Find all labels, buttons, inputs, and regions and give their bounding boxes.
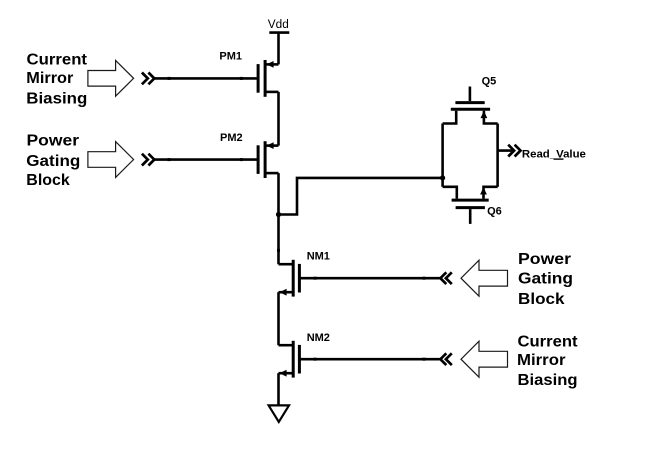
- text Power Gating Block left: [26, 133, 80, 189]
- svg-text:Q5: Q5: [482, 75, 497, 87]
- transistor PM1: [258, 60, 278, 97]
- svg-text:Current: Current: [27, 52, 88, 69]
- port chevrons Current Mirror Biasing left: [142, 73, 154, 85]
- svg-text:Block: Block: [518, 291, 565, 308]
- svg-text:Current: Current: [518, 333, 579, 350]
- text Current Mirror Biasing left: [26, 52, 87, 108]
- block arrow Current Mirror Biasing left: [88, 60, 134, 96]
- svg-text:Q6: Q6: [487, 206, 502, 218]
- transistor NM2: [279, 341, 300, 378]
- wire PM1 drain to PM2 source: [277, 92, 280, 146]
- svg-text:Block: Block: [26, 172, 70, 189]
- svg-text:Vdd: Vdd: [268, 19, 289, 31]
- svg-text:NM2: NM2: [307, 332, 330, 344]
- port chevrons Power Gating Block right: [440, 272, 451, 284]
- wire left port to PM1 gate: [154, 77, 258, 80]
- svg-text:Mirror: Mirror: [26, 70, 73, 87]
- wire transmission gate left vertical: [441, 124, 444, 187]
- transistor Q6: [443, 187, 498, 224]
- block arrow Current Mirror Biasing right: [461, 341, 508, 377]
- transistor NM1: [279, 260, 300, 297]
- svg-text:Biasing: Biasing: [26, 91, 87, 108]
- Vdd power rail bar: [269, 31, 289, 34]
- svg-text:PM1: PM1: [219, 51, 242, 63]
- transistor Q5: [443, 87, 498, 124]
- underscore emphasis in Read_Value: [554, 158, 564, 159]
- wire NM2 source to ground: [277, 373, 280, 405]
- wire transmission gate right vertical: [496, 124, 499, 187]
- wire left port to PM2 gate: [154, 158, 258, 161]
- wire NM1 gate to right port: [299, 277, 440, 280]
- wire junction to transmission gate: [279, 178, 443, 215]
- junction dot at transmission gate input: [440, 175, 445, 180]
- transistor PM2: [258, 141, 278, 178]
- port chevrons Read_Value output: [508, 145, 520, 157]
- block arrow Power Gating Block left: [88, 142, 134, 178]
- port chevrons Power Gating Block left: [142, 154, 154, 166]
- junction dot on rail: [276, 212, 281, 217]
- wire NM2 gate to right port: [299, 358, 440, 361]
- block arrow Power Gating Block right: [461, 260, 508, 296]
- wire joint ticks: [168, 77, 426, 361]
- svg-text:Power: Power: [27, 133, 80, 150]
- svg-text:PM2: PM2: [220, 132, 243, 144]
- svg-text:NM1: NM1: [307, 251, 330, 263]
- ground symbol: [269, 405, 289, 422]
- wire Vdd bar to PM1 source: [277, 33, 280, 65]
- svg-text:Biasing: Biasing: [518, 372, 578, 389]
- text Current Mirror Biasing right: [517, 333, 578, 388]
- port chevrons Current Mirror Biasing right: [440, 353, 451, 365]
- wire PM2 drain down to NM1 drain: [277, 173, 280, 264]
- svg-text:Mirror: Mirror: [517, 352, 566, 369]
- svg-text:Gating: Gating: [26, 153, 80, 170]
- svg-text:Gating: Gating: [518, 270, 573, 287]
- wire NM1 source to NM2 drain: [277, 292, 280, 345]
- text Power Gating Block right: [518, 251, 573, 308]
- wire transmission gate output: [498, 149, 514, 152]
- svg-text:Power: Power: [518, 251, 571, 268]
